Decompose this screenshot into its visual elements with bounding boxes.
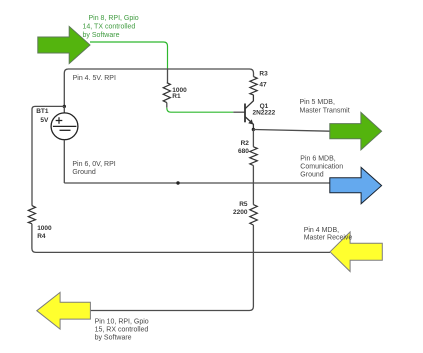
svg-text:Pin 6, 0V, RPI: Pin 6, 0V, RPI bbox=[72, 161, 115, 168]
svg-text:2200: 2200 bbox=[233, 209, 248, 216]
svg-text:680: 680 bbox=[238, 148, 249, 155]
svg-text:15, RX controlled: 15, RX controlled bbox=[95, 327, 149, 334]
wire 5V rail bbox=[64, 69, 253, 106]
svg-text:1000: 1000 bbox=[37, 225, 52, 232]
battery BT1 bbox=[51, 106, 78, 183]
label R4 bbox=[37, 225, 52, 240]
transistor Q1 bbox=[245, 95, 253, 130]
resistor R3 bbox=[250, 77, 257, 95]
node junction dot battery bbox=[63, 105, 66, 108]
label pin5 MDB bbox=[300, 99, 350, 115]
arrow A4 (yellow, MDB4 receive) bbox=[330, 232, 382, 272]
svg-text:Master Receive: Master Receive bbox=[304, 234, 353, 241]
svg-text:2N2222: 2N2222 bbox=[253, 109, 276, 116]
label R3 bbox=[259, 70, 268, 88]
svg-text:R4: R4 bbox=[37, 233, 46, 240]
arrow A1 (green, RPI TX) bbox=[38, 27, 90, 64]
wire emitter to MDB5 bbox=[253, 130, 330, 132]
wire green base bbox=[167, 108, 234, 113]
node junction dot emitter bbox=[252, 128, 255, 131]
svg-text:Pin 4 MDB,: Pin 4 MDB, bbox=[304, 227, 339, 234]
label pin8 bbox=[83, 15, 139, 39]
wire green TX from arrow to R1 bbox=[90, 42, 168, 69]
label R5 bbox=[233, 201, 248, 216]
svg-text:R1: R1 bbox=[172, 93, 181, 100]
resistor R1 bbox=[163, 83, 170, 103]
svg-text:Pin 10, RPI, Gpio: Pin 10, RPI, Gpio bbox=[95, 319, 149, 326]
svg-text:R5: R5 bbox=[239, 201, 248, 208]
label pin6 MDB bbox=[300, 155, 343, 178]
svg-text:14, TX controlled: 14, TX controlled bbox=[83, 24, 136, 31]
svg-text:Pin 5 MDB,: Pin 5 MDB, bbox=[300, 99, 335, 106]
svg-text:by Software: by Software bbox=[83, 32, 120, 39]
wire R2-R5 bbox=[252, 166, 254, 205]
resistor R5 bbox=[250, 205, 257, 225]
svg-text:by Software: by Software bbox=[95, 335, 132, 342]
arrow A2 (green, MDB5 transmit) bbox=[330, 112, 382, 149]
svg-text:47: 47 bbox=[259, 82, 267, 89]
arrow A3 (blue, MDB6 ground) bbox=[330, 167, 382, 203]
wire battery bracket bbox=[32, 106, 64, 205]
svg-text:Ground: Ground bbox=[72, 169, 95, 176]
svg-text:Pin 4. 5V. RPI: Pin 4. 5V. RPI bbox=[73, 75, 116, 82]
label pin6 ground bbox=[72, 161, 115, 176]
svg-text:Ground: Ground bbox=[300, 172, 323, 179]
svg-text:5V: 5V bbox=[40, 117, 49, 124]
label Q1 bbox=[253, 103, 276, 116]
label pin4 MDB bbox=[304, 227, 353, 242]
label pin10 bbox=[95, 319, 149, 342]
wire R5 to RX bbox=[90, 225, 253, 311]
svg-text:BT1: BT1 bbox=[36, 108, 49, 115]
label R2 bbox=[238, 140, 249, 155]
svg-text:R3: R3 bbox=[259, 70, 268, 77]
label BT1 bbox=[36, 108, 49, 124]
wire R1 bottom stub bbox=[166, 103, 168, 108]
arrow A5 (yellow, RPI RX) bbox=[37, 292, 91, 329]
wire bottom rail bbox=[32, 224, 330, 253]
svg-text:Pin 6 MDB,: Pin 6 MDB, bbox=[300, 155, 335, 162]
svg-text:Pin 8, RPI, Gpio: Pin 8, RPI, Gpio bbox=[89, 15, 139, 22]
svg-text:R2: R2 bbox=[241, 140, 250, 147]
resistor R4 bbox=[28, 206, 35, 224]
wire base stub bbox=[233, 111, 245, 113]
wire ground rail bbox=[64, 182, 330, 184]
wire R1 top stub bbox=[167, 69, 169, 83]
resistor R2 bbox=[252, 130, 254, 147]
svg-text:Master Transmit: Master Transmit bbox=[300, 107, 350, 114]
node junction dot ground rail bbox=[176, 181, 179, 184]
label R1 bbox=[172, 87, 187, 100]
svg-text:Comunication: Comunication bbox=[300, 164, 343, 171]
